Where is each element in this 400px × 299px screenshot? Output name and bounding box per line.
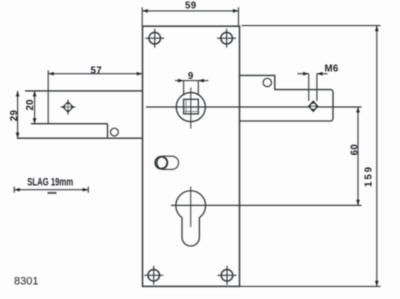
arrow 9 left [178,79,184,83]
arrow M6 right [317,72,323,76]
node: main horizontal centerline through spindle and M6 [146,106,362,108]
arrow 159 bottom [375,281,379,287]
dim 59 line [142,10,238,12]
dim 60 line [357,107,359,205]
svg-text:60: 60 [350,144,361,155]
dim 59 ext right [238,7,240,26]
latch roller circle [111,128,119,136]
hub slot stadium [157,156,179,169]
dim 20 line [34,91,36,124]
arrow 20 bottom [33,118,37,124]
dim M6 ext left [308,74,310,101]
arrow 20 top [33,91,37,97]
dim M6 ext right [316,74,318,101]
svg-text:M6: M6 [325,63,339,74]
spindle vertical centerline [190,88,192,129]
arrow 60 top [356,107,360,113]
svg-text:9: 9 [188,71,194,82]
mounting hole top-right [217,29,236,48]
arrow 60 bottom [356,200,360,206]
dim 57 ext / latch front face [47,70,49,123]
spindle square 9mm [184,99,199,114]
node: euro cylinder centerline [171,204,362,206]
dim 59 ext left [141,7,143,26]
arrow SLAG left [14,188,20,192]
hub slot circle [155,157,167,169]
mounting hole top-left [145,29,164,48]
euro vertical centerline [190,187,192,228]
svg-text:59: 59 [185,1,197,12]
arrow 59 left [142,9,148,13]
arrow 9 right [198,79,204,83]
latch line B [31,123,108,125]
dim 57 line [48,73,142,75]
dim 9 line [175,80,208,82]
latch line C bottom [17,137,142,139]
dim M6 line [298,73,309,75]
dim SLAG line [14,189,88,191]
arrow 29 bottom [16,133,20,139]
svg-text:159: 159 [363,165,374,187]
euro cylinder cutout [176,191,206,246]
wire: 159 top extension line [242,25,381,27]
arrow 57 right [137,72,143,76]
svg-text:SLAG 19mm: SLAG 19mm [27,176,73,188]
M6 stud diamond symbol [308,100,318,112]
mounting hole bottom-left [144,266,163,285]
svg-text:8301: 8301 [14,276,38,288]
SLAG center tick [48,192,57,194]
arrow 29 top [16,91,20,97]
right plate hole circle [263,78,271,86]
arrow SLAG right [83,188,89,192]
svg-text:20: 20 [25,99,36,110]
dim 159 line [376,26,378,287]
wire: case bottom edge extension to 159 dim [239,285,380,287]
spindle square inner lines [185,100,187,114]
right plate outline [239,75,333,121]
spindle follower circle [176,93,205,122]
svg-text:57: 57 [90,65,101,76]
arrow 59 right [233,9,239,13]
latch line A top [25,90,142,92]
dim 29 line [17,91,19,138]
arrow M6 left [303,72,309,76]
arrow 159 top [375,26,379,32]
latch step [107,124,109,139]
mounting hole bottom-right [218,266,237,285]
svg-text:29: 29 [9,110,20,122]
lock case outline [143,26,240,286]
dim 9 ext left [183,81,185,96]
arrow 57 left [48,72,54,76]
dim 9 ext right [197,81,199,96]
latch fixing diamond symbol [61,100,76,115]
